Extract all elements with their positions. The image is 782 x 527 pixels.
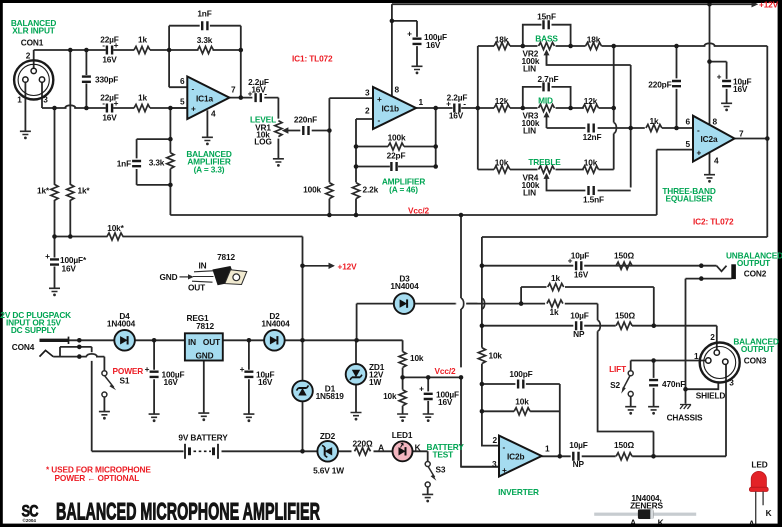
junction (391.9,20.9) <box>390 19 395 24</box>
op-amp IC1b <box>373 87 416 129</box>
svg-text:16V: 16V <box>574 270 589 280</box>
capacitor 2.7nF <box>544 82 549 91</box>
svg-text:1k: 1k <box>138 93 147 103</box>
capacitor 10uF NP out <box>573 452 578 461</box>
resistor 100k bias <box>326 183 333 199</box>
junction (86.4,108) <box>84 106 89 111</box>
svg-text:+: + <box>717 72 722 82</box>
svg-text:-: - <box>697 125 700 135</box>
junction (613.7,108) <box>611 106 616 111</box>
svg-text:10µF: 10µF <box>570 311 589 321</box>
wire 470nF branch <box>653 361 655 407</box>
svg-text:1N4004: 1N4004 <box>107 319 136 329</box>
svg-text:10k: 10k <box>495 158 509 168</box>
capacitor 100uF reg in <box>150 372 159 377</box>
svg-text:-: - <box>378 115 381 125</box>
switch S1 power <box>102 371 107 376</box>
capacitor 10uF IC2a bypass <box>722 81 731 86</box>
svg-text:CON3: CON3 <box>744 356 767 366</box>
wire Vcc/2 rail y=215 <box>170 214 656 216</box>
resistor 10k left treble <box>494 166 510 173</box>
resistor 10k* <box>107 233 123 240</box>
svg-text:K: K <box>766 508 772 518</box>
svg-text:1nF: 1nF <box>117 159 131 169</box>
svg-text:150Ω: 150Ω <box>614 251 634 261</box>
resistor 1k* left <box>51 184 58 200</box>
junction (653.6,360.5) <box>651 358 656 363</box>
wire 1k* right vertical x=70.3 <box>69 50 71 237</box>
wire IC1b pin8 supply x=391.9 <box>391 4 393 96</box>
svg-text:+12V: +12V <box>338 262 358 272</box>
junction (701.3,265.7) <box>699 263 704 268</box>
svg-text:(A = 46): (A = 46) <box>389 185 418 195</box>
svg-text:5.6V 1W: 5.6V 1W <box>313 466 344 476</box>
svg-text:DC SUPPLY: DC SUPPLY <box>11 325 57 335</box>
wire feedback vertical x=169.1 <box>168 26 170 87</box>
wire x=597.6 dc feed down <box>598 304 654 457</box>
ground S2 <box>625 407 636 415</box>
svg-text:-: - <box>192 84 195 94</box>
junction (701.3,278.6) <box>699 276 704 281</box>
svg-text:TREBLE: TREBLE <box>528 157 561 167</box>
junction (685.5,389.2) <box>683 387 688 392</box>
svg-text:3.3k: 3.3k <box>197 35 213 45</box>
capacitor 220pF feedback <box>672 81 681 86</box>
wire dc jack sleeve row y=356.6 <box>53 357 104 371</box>
potentiometer VR1 level <box>275 121 282 137</box>
svg-text:+: + <box>419 384 424 394</box>
ground REG1 <box>198 413 209 421</box>
svg-text:100k: 100k <box>388 133 406 143</box>
svg-text:7: 7 <box>739 129 744 139</box>
wire +12V arrow stub <box>303 265 334 267</box>
svg-text:100k: 100k <box>303 185 321 195</box>
resistor 1k row C <box>547 300 563 307</box>
ground IC2a pin4 <box>704 175 715 183</box>
junction (461,377.4) <box>459 375 464 380</box>
svg-text:10k: 10k <box>410 353 424 363</box>
svg-text:©2004: ©2004 <box>23 517 37 523</box>
svg-text:12nF: 12nF <box>583 132 602 142</box>
diode D3 1N4004 <box>394 293 415 314</box>
capacitor 2.2uF IC1a out <box>256 93 261 102</box>
junction (170.4,108) <box>168 106 173 111</box>
ground 10uF reg <box>243 414 254 422</box>
resistor 150R lower <box>616 453 632 460</box>
svg-text:1N4004: 1N4004 <box>390 281 419 291</box>
wire CON1 pin2 up <box>33 50 35 68</box>
svg-text:2: 2 <box>710 332 715 342</box>
svg-text:7812: 7812 <box>196 321 214 331</box>
svg-text:-: - <box>264 88 267 98</box>
svg-text:+: + <box>446 99 451 109</box>
svg-text:BALANCED MICROPHONE AMPLIFIER: BALANCED MICROPHONE AMPLIFIER <box>56 499 320 526</box>
svg-text:S2: S2 <box>610 380 620 390</box>
svg-text:IC2b: IC2b <box>507 452 524 462</box>
junction (70.3,50) <box>68 48 73 53</box>
svg-text:12k: 12k <box>584 96 598 106</box>
junction (435.7,108) <box>433 106 438 111</box>
connector CON4 dc jack <box>40 337 69 357</box>
junction (676.5,46) <box>674 44 679 49</box>
capacitor 10uF unbalanced <box>576 261 581 270</box>
svg-text:10k*: 10k* <box>107 223 124 233</box>
capacitor 1.5nF <box>589 186 594 195</box>
wire 10uF bypass IC2a <box>710 62 727 104</box>
zener ZD1 12V <box>346 364 367 385</box>
logo SC <box>22 503 39 523</box>
svg-text:10k: 10k <box>515 397 529 407</box>
svg-text:K: K <box>415 443 421 453</box>
hop BASS row over x=709.5 <box>704 43 715 46</box>
capacitor 100uF supply bypass <box>413 39 422 44</box>
drawing 7812 TO-220 package <box>160 252 247 293</box>
svg-text:5: 5 <box>180 97 185 107</box>
svg-text:(A = 3.3): (A = 3.3) <box>194 165 225 175</box>
LED1 battery test <box>393 441 413 461</box>
svg-text:16V: 16V <box>62 264 77 274</box>
junction (653.8,325.7) <box>652 323 657 328</box>
svg-text:POWER: POWER <box>113 366 144 376</box>
wire CON1 pin3 down <box>41 82 43 108</box>
svg-text:2.2k: 2.2k <box>363 185 379 195</box>
svg-text:-: - <box>102 40 105 50</box>
wire tone input vertical x=477.8 <box>477 46 479 170</box>
svg-text:IC2: TL072: IC2: TL072 <box>693 217 734 227</box>
wire 22pF feedback row y=166.5 <box>356 166 436 168</box>
svg-text:IN: IN <box>188 337 196 347</box>
junction (329.4,215) <box>327 213 332 218</box>
svg-text:LOG: LOG <box>254 136 272 146</box>
svg-text:2.7nF: 2.7nF <box>538 74 559 84</box>
svg-text:IC1a: IC1a <box>196 93 213 103</box>
svg-text:6: 6 <box>180 76 185 86</box>
connector CON3 balanced XLR output <box>700 343 740 383</box>
ground 100uF vcc2 <box>423 414 434 422</box>
wire battery row y=451.3 <box>92 450 393 452</box>
svg-text:CHASSIS: CHASSIS <box>667 413 703 423</box>
svg-text:+: + <box>45 251 50 261</box>
diode D1 1N5819 <box>292 381 313 402</box>
resistor 150R balanced <box>616 322 632 329</box>
junction (79.3,340.3) <box>77 338 82 343</box>
junction (570.6,46) <box>568 44 573 49</box>
ground 470nF <box>648 407 659 415</box>
junction (653.5,456.3) <box>651 454 656 459</box>
wire IC1a pin4 ground <box>206 110 208 137</box>
capacitor 22pF <box>391 162 396 171</box>
svg-text:22pF: 22pF <box>387 151 406 161</box>
svg-text:MID: MID <box>538 96 553 106</box>
ground VR1 <box>273 159 284 167</box>
capacitor 100uF vcc2 <box>424 394 433 399</box>
svg-text:10k: 10k <box>584 158 598 168</box>
wire CON1 pin1 down to ground <box>24 82 26 131</box>
resistor 10k feedback IC2b <box>514 408 530 415</box>
svg-text:3: 3 <box>365 88 370 98</box>
svg-text:1k*: 1k* <box>37 186 50 196</box>
junction (79.3,356.6) <box>77 354 82 359</box>
junction (356,215) <box>354 213 359 218</box>
capacitor 22uF top <box>107 46 112 55</box>
wire reg gnd pin <box>203 361 205 414</box>
capacitor 1nF feedback top <box>202 21 207 30</box>
wire 15nF bracket <box>523 25 571 46</box>
svg-text:10k: 10k <box>383 391 397 401</box>
junction (248.9,340.3) <box>247 338 252 343</box>
junction (676.5,128) <box>674 126 679 131</box>
svg-text:1k: 1k <box>551 273 560 283</box>
wire reg caps <box>154 340 249 414</box>
capacitor 10uF reg out <box>244 372 253 377</box>
svg-text:220nF: 220nF <box>294 115 317 125</box>
svg-text:150Ω: 150Ω <box>615 311 635 321</box>
svg-text:XLR INPUT: XLR INPUT <box>12 26 55 36</box>
resistor 150R unbalanced <box>616 262 632 269</box>
svg-text:470nF: 470nF <box>662 379 685 389</box>
wire IC2b 10k row y=411.3 <box>482 410 560 412</box>
svg-text:330pF: 330pF <box>95 75 118 85</box>
svg-text:1: 1 <box>694 351 699 361</box>
wire S3 ground <box>427 487 429 494</box>
potentiometer VR3 mid <box>539 104 555 111</box>
switch S2 lift <box>628 371 633 376</box>
svg-text:1W: 1W <box>369 377 381 387</box>
svg-text:TEST: TEST <box>433 450 454 460</box>
svg-text:NP: NP <box>573 329 585 339</box>
wire CON2 sleeve row y=278.6 <box>686 279 732 390</box>
wire CON2 tip contact <box>717 266 727 272</box>
svg-text:+: + <box>240 364 245 374</box>
svg-text:3.3k: 3.3k <box>149 158 165 168</box>
svg-text:2: 2 <box>365 106 370 116</box>
junction (709.5,61.6) <box>707 59 712 64</box>
zener ZD2 5.6V <box>317 441 338 462</box>
svg-text:2: 2 <box>26 51 31 61</box>
svg-text:S3: S3 <box>436 465 446 475</box>
battery 9V <box>185 444 218 459</box>
svg-text:1N5819: 1N5819 <box>316 391 345 401</box>
junction (435.7,146.5) <box>433 144 438 149</box>
capacitor 100uF* <box>50 259 59 264</box>
wire sleeve to chassis <box>685 389 687 404</box>
drawing LED package <box>749 460 772 527</box>
junction (477.8,108) <box>476 106 481 111</box>
svg-text:12k: 12k <box>495 96 509 106</box>
svg-text:OUTPUT: OUTPUT <box>741 344 774 354</box>
junction (302.5,451.3) <box>300 449 305 454</box>
svg-text:1: 1 <box>419 97 424 107</box>
svg-text:+: + <box>568 256 573 266</box>
junction (356.6,340.3) <box>354 338 359 343</box>
svg-text:220pF: 220pF <box>648 80 671 90</box>
op-amp IC2a <box>693 116 735 162</box>
svg-text:16V: 16V <box>438 397 453 407</box>
svg-text:OUT: OUT <box>188 283 205 293</box>
ground IC1a pin4 <box>202 137 213 145</box>
wire IC1a pin5 junction <box>170 107 187 109</box>
junction (86.4,50) <box>84 48 89 53</box>
drawing axial diode 1N4004/zeners <box>594 493 696 527</box>
ground S1 <box>99 412 110 420</box>
resistor 1k bottom <box>134 104 150 111</box>
wire row B left drop x=521.1 <box>520 287 522 304</box>
svg-text:1N4004: 1N4004 <box>261 319 290 329</box>
junction (240.8,50) <box>239 48 244 53</box>
capacitor 220nF <box>303 126 308 135</box>
wire 100uF vcc2 cap x=428.2 <box>427 377 429 414</box>
svg-text:16V: 16V <box>102 113 117 123</box>
wire VR4 wiper <box>547 175 631 191</box>
wire IC2a pin5 bias <box>657 150 693 215</box>
svg-text:16V: 16V <box>426 40 441 50</box>
junction (302.5,340.3) <box>300 338 305 343</box>
svg-text:IC1b: IC1b <box>382 104 399 114</box>
wire CON3 pin3 down x=726 <box>725 365 727 457</box>
svg-text:+: + <box>191 104 196 114</box>
ground 100uF* <box>49 288 60 296</box>
svg-text:9V BATTERY: 9V BATTERY <box>178 433 228 443</box>
svg-text:EQUALISER: EQUALISER <box>665 194 712 204</box>
wire BASS row y=46 <box>478 45 768 47</box>
junction (329.4,130.5) <box>327 128 332 133</box>
wire +12V vertical x=302.5 <box>302 237 304 452</box>
svg-text:+: + <box>502 465 507 475</box>
svg-text:16V: 16V <box>164 377 179 387</box>
junction (613.7,46) <box>611 44 616 49</box>
svg-text:LIN: LIN <box>523 188 536 198</box>
wire VR1 wiper to 220nF <box>288 130 330 132</box>
wire shield link <box>686 382 719 389</box>
wire Vcc2 divider row y=377.4 <box>403 376 461 378</box>
capacitor 10uF NP balanced <box>576 321 581 330</box>
svg-text:BASS: BASS <box>535 34 558 44</box>
svg-text:+: + <box>114 98 119 108</box>
svg-text:5: 5 <box>686 139 691 149</box>
wire feedback vertical x=435.7 <box>435 108 437 166</box>
svg-text:IN: IN <box>199 261 207 271</box>
op-amp IC1a <box>187 77 229 120</box>
svg-text:IC1: TL072: IC1: TL072 <box>292 54 333 64</box>
wire row A y=265.7 unbalanced <box>482 265 717 267</box>
svg-text:Vcc/2: Vcc/2 <box>408 206 429 216</box>
junction (402.6,377.4) <box>400 375 405 380</box>
wire S1 ground <box>103 397 105 412</box>
potentiometer VR4 treble <box>539 166 555 173</box>
regulator REG1 7812 box <box>185 333 223 360</box>
svg-text:CON1: CON1 <box>21 38 44 48</box>
capacitor 12nF <box>589 124 594 133</box>
ground 10uF IC2a <box>721 103 732 111</box>
ground ZD1 <box>351 413 362 421</box>
wire IC2b 100pF row y=384 <box>482 384 560 456</box>
svg-text:16V: 16V <box>449 111 464 121</box>
ground CON1 pin1 <box>20 131 31 139</box>
potentiometer VR2 bass <box>539 42 555 49</box>
svg-text:18k: 18k <box>495 35 509 45</box>
junction (481.9,325.7) <box>480 323 485 328</box>
svg-text:ZENERS: ZENERS <box>630 501 663 511</box>
svg-text:INVERTER: INVERTER <box>498 487 539 497</box>
resistor 1k row B <box>548 283 564 290</box>
junction (481.9,384) <box>480 382 485 387</box>
junction (522.8,108) <box>521 106 526 111</box>
wire IC2b output row y=456.3 <box>542 455 726 457</box>
wire feedback vertical x=240.8 <box>240 26 242 98</box>
wire top input y=50 <box>34 49 241 51</box>
svg-text:1nF: 1nF <box>197 9 211 19</box>
svg-text:LED1: LED1 <box>392 430 413 440</box>
wire CON3 pin1 lift row y=360.5 <box>631 361 706 371</box>
svg-text:4: 4 <box>714 156 719 166</box>
wire output distribution row y=237 <box>482 236 767 238</box>
svg-text:LIN: LIN <box>523 64 536 74</box>
wire IC1b pin2 <box>356 118 373 120</box>
svg-text:+: + <box>377 94 382 104</box>
resistor 12k right <box>583 104 599 111</box>
svg-text:-: - <box>503 442 506 452</box>
svg-text:10µF: 10µF <box>569 440 588 450</box>
wire 10k* row y=236.5 <box>55 236 303 238</box>
wire IC1b pin3 <box>329 97 373 99</box>
svg-text:16V: 16V <box>733 84 748 94</box>
svg-text:18k: 18k <box>587 35 601 45</box>
wire IC1b output y=108 <box>416 107 478 109</box>
junction (170.4,184.9) <box>168 183 173 188</box>
wire x=356 vertical 2.2k <box>355 119 357 215</box>
svg-text:GND: GND <box>160 272 178 282</box>
frame border <box>0 0 782 3</box>
junction (356,146.5) <box>354 144 359 149</box>
junction (481.9,265.7) <box>480 263 485 268</box>
svg-text:1k*: 1k* <box>78 186 91 196</box>
op-amp IC2b <box>499 436 542 477</box>
wire IC1a output y=97.6 <box>229 97 278 99</box>
wire 100k feedback row y=146.5 <box>356 146 436 148</box>
wire row B 1k y=287 <box>521 287 654 326</box>
svg-text:220Ω: 220Ω <box>353 439 373 449</box>
svg-text:100pF: 100pF <box>509 369 532 379</box>
svg-text:NP: NP <box>573 459 585 469</box>
svg-text:+: + <box>697 148 702 158</box>
diode D2 1N4004 <box>264 330 285 351</box>
junction (461,215) <box>459 213 464 218</box>
wire IC1a pin6 <box>169 86 187 88</box>
wire 100uF bypass branch <box>392 21 417 66</box>
svg-text:150Ω: 150Ω <box>614 440 634 450</box>
junction (70.3,236.5) <box>68 234 73 239</box>
svg-text:+: + <box>248 88 253 98</box>
wire 2.7nF bracket <box>523 87 571 108</box>
junction (428.2,377.4) <box>426 375 431 380</box>
svg-text:1k: 1k <box>138 35 147 45</box>
wire D3 row y=303.6 <box>357 303 598 305</box>
capacitor 470nF <box>649 380 658 385</box>
resistor 1k top <box>134 46 150 53</box>
capacitor 100pF <box>518 380 523 389</box>
ground S3 <box>422 494 433 502</box>
wire TREBLE row y=169.5 <box>478 169 614 171</box>
junction (709.5,4.2) <box>707 2 712 7</box>
svg-text:6: 6 <box>686 117 691 127</box>
svg-text:ZD2: ZD2 <box>320 431 336 441</box>
svg-text:A: A <box>378 443 384 453</box>
svg-text:+: + <box>407 29 412 39</box>
wire IC2a pin8 x=709.5 <box>709 4 711 125</box>
resistor 10k IC2b input <box>478 348 485 364</box>
svg-text:10k: 10k <box>489 351 503 361</box>
wire IC2a output y=138.5 <box>735 138 768 140</box>
